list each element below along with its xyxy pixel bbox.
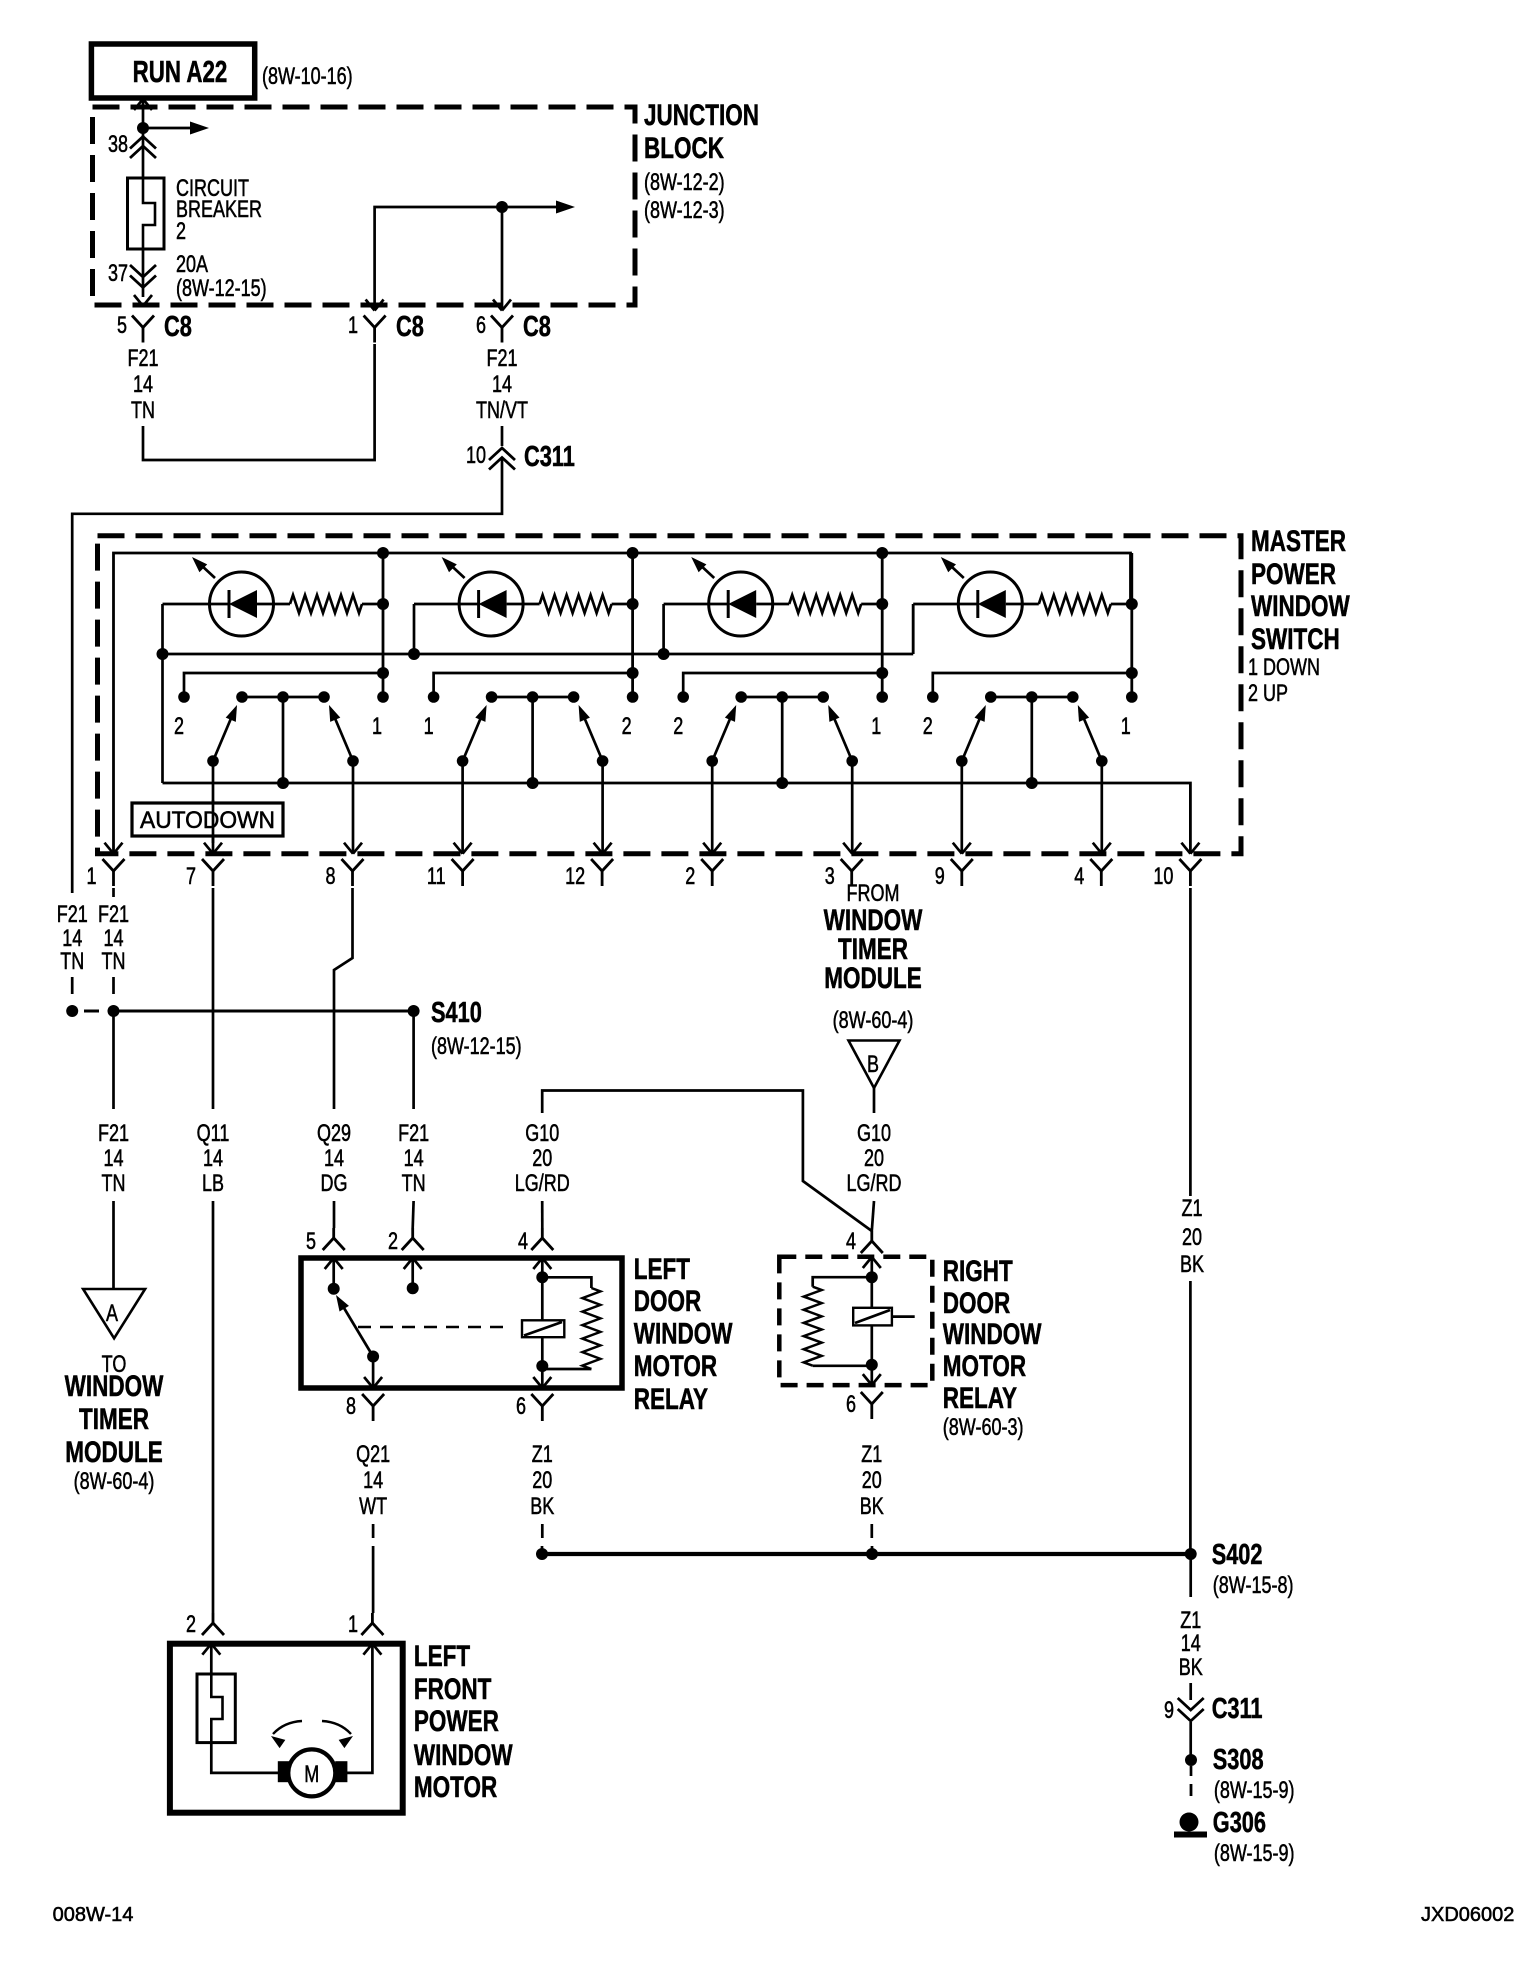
svg-text:2 UP: 2 UP <box>1248 681 1288 707</box>
svg-text:1: 1 <box>348 313 358 339</box>
arrow into motor pin 2 <box>202 1644 211 1655</box>
svg-text:1: 1 <box>372 714 382 740</box>
switch ground bus <box>163 783 1191 854</box>
switch cell 3 contact row <box>741 696 823 699</box>
switch cell 2 lamp return wire <box>413 604 416 654</box>
svg-text:JUNCTION: JUNCTION <box>644 98 759 132</box>
svg-text:M: M <box>304 1762 319 1788</box>
arrow at junction block border pin 6 <box>493 300 502 311</box>
node left relay pin2 <box>407 1282 419 1294</box>
switch cell 4 supply branch <box>1130 553 1133 697</box>
left relay pin 5 connector <box>332 1228 335 1238</box>
svg-text:F21: F21 <box>57 902 88 928</box>
motor circuit breaker <box>197 1674 235 1743</box>
arrow into right relay pin 4 <box>863 1257 872 1268</box>
switch cell 2 resistor <box>540 595 612 613</box>
svg-text:MODULE: MODULE <box>824 961 921 995</box>
switch pin 9 connector <box>951 859 973 871</box>
switch pin 10 connector <box>1179 859 1201 871</box>
svg-text:WINDOW: WINDOW <box>65 1369 164 1403</box>
power feed box RUN A22 <box>91 44 254 98</box>
left relay armature arm <box>341 1303 373 1357</box>
arrow at junction block border pin 5 <box>134 295 143 306</box>
switch cell 4 lamp return wire <box>912 604 915 654</box>
switch cell 3 illumination arrow <box>700 565 714 578</box>
svg-text:(8W-60-4): (8W-60-4) <box>833 1008 914 1034</box>
wire G10 from B to right relay pin 4 <box>873 1088 876 1113</box>
svg-text:(8W-12-15): (8W-12-15) <box>176 276 267 302</box>
svg-text:LB: LB <box>202 1171 224 1197</box>
svg-text:A: A <box>106 1301 119 1327</box>
svg-text:C8: C8 <box>523 311 551 343</box>
right relay coil <box>853 1308 892 1326</box>
switch cell 4 wiper wires to pins <box>960 761 963 854</box>
switch cell 4 illumination arrow <box>950 565 964 578</box>
node S402 bus left end <box>536 1548 548 1560</box>
left relay linkage dashed <box>358 1326 512 1328</box>
svg-text:F21: F21 <box>98 902 129 928</box>
right relay pin 6 connector <box>861 1392 883 1404</box>
arrow out right relay pin 6 <box>863 1374 872 1385</box>
arrow into motor pin 1 <box>363 1644 372 1655</box>
svg-text:WINDOW: WINDOW <box>1251 589 1350 623</box>
wire 5C8 loop to 1C8 <box>143 344 375 460</box>
svg-text:AUTODOWN: AUTODOWN <box>140 806 275 833</box>
svg-text:G10: G10 <box>525 1121 559 1147</box>
off-page connector B from window timer module <box>849 1041 900 1089</box>
svg-text:RUN A22: RUN A22 <box>133 54 228 88</box>
motor pin 2 connector <box>212 1613 215 1623</box>
svg-text:20: 20 <box>532 1468 552 1494</box>
left relay pin 8 connector <box>362 1394 384 1406</box>
node right relay coil bottom <box>866 1359 878 1371</box>
connector C311 pin 9 chevrons <box>1178 1698 1204 1710</box>
wire S402 down <box>1189 1554 1192 1597</box>
svg-text:BK: BK <box>530 1494 554 1520</box>
switch cell 3 lamp return wire <box>662 604 665 654</box>
right relay resistor <box>813 1277 872 1287</box>
svg-text:8: 8 <box>325 864 335 890</box>
left relay resistor <box>542 1277 591 1288</box>
wire arrow to right inside block <box>502 206 556 209</box>
switch cell 3 wiper wires to pins <box>711 761 714 854</box>
svg-text:(8W-10-16): (8W-10-16) <box>262 64 353 90</box>
svg-text:14: 14 <box>492 372 512 398</box>
connector C8 pin 37 chevrons <box>130 265 156 277</box>
svg-text:12: 12 <box>565 864 585 890</box>
svg-text:1: 1 <box>348 1612 358 1638</box>
svg-text:(8W-15-8): (8W-15-8) <box>1213 1573 1294 1599</box>
svg-text:38: 38 <box>108 132 128 158</box>
svg-text:20: 20 <box>862 1468 882 1494</box>
wire F21 TN from S410 to relay pin 2 <box>412 1011 415 1109</box>
svg-text:(8W-15-9): (8W-15-9) <box>1214 1778 1295 1804</box>
svg-text:20A: 20A <box>176 252 209 278</box>
switch cell 2 contact row <box>492 696 574 699</box>
svg-text:S410: S410 <box>431 997 482 1029</box>
switch cell 3 left wiper arm <box>712 716 731 761</box>
svg-text:C8: C8 <box>164 311 192 343</box>
splice S410 <box>408 1005 420 1017</box>
svg-text:MOTOR: MOTOR <box>414 1770 497 1804</box>
svg-text:1: 1 <box>1121 714 1131 740</box>
switch cell 2 outer contact link <box>434 673 633 697</box>
connector C8 pin 1 <box>364 316 386 328</box>
circuit breaker 2 20A <box>128 178 165 249</box>
arrow into RUN A22 box <box>134 99 143 110</box>
svg-text:WT: WT <box>359 1494 387 1520</box>
svg-text:14: 14 <box>404 1146 424 1172</box>
wire Z1 from switch pin 10 <box>1189 888 1192 1196</box>
svg-text:DOOR: DOOR <box>943 1286 1010 1320</box>
switch top supply bus <box>114 553 1131 854</box>
right relay pin 4 connector <box>870 1231 873 1241</box>
svg-text:20: 20 <box>864 1146 884 1172</box>
switch cell 4 left wiper arm <box>962 716 981 761</box>
node left relay pin5 <box>328 1283 340 1295</box>
svg-text:(8W-12-3): (8W-12-3) <box>644 198 725 224</box>
AUTODOWN function box <box>132 803 283 836</box>
svg-text:9: 9 <box>1164 1698 1174 1724</box>
wire branch arrow to right <box>143 127 192 130</box>
svg-text:Q21: Q21 <box>356 1442 390 1468</box>
svg-text:MOTOR: MOTOR <box>943 1349 1026 1383</box>
off-page connector A to window timer module <box>83 1289 145 1338</box>
left relay coil <box>522 1320 564 1337</box>
svg-text:6: 6 <box>476 313 486 339</box>
svg-text:MOTOR: MOTOR <box>634 1349 717 1383</box>
wire Q11 from switch pin 7 to motor <box>212 888 215 1109</box>
motor rotation arrows <box>273 1721 302 1734</box>
svg-text:2: 2 <box>923 714 933 740</box>
svg-text:S308: S308 <box>1213 1744 1264 1776</box>
svg-text:14: 14 <box>103 1146 123 1172</box>
svg-text:1: 1 <box>871 714 881 740</box>
switch cell 1 center contact to ground bus <box>282 697 285 783</box>
svg-text:BK: BK <box>1180 1252 1204 1278</box>
svg-text:14: 14 <box>324 1146 344 1172</box>
svg-text:RELAY: RELAY <box>943 1381 1017 1415</box>
arrow into left relay pin 2 <box>404 1258 413 1269</box>
arrow at switch border pin 1 <box>105 843 114 854</box>
arrow at junction block border pin 1 <box>366 300 375 311</box>
switch pin 1 connector <box>103 859 125 871</box>
svg-text:4: 4 <box>518 1229 528 1255</box>
svg-text:SWITCH: SWITCH <box>1251 622 1340 656</box>
left relay pin 2 connector <box>411 1228 414 1238</box>
svg-text:Z1: Z1 <box>861 1442 882 1468</box>
svg-text:RELAY: RELAY <box>634 1382 708 1416</box>
svg-text:F21: F21 <box>98 1121 129 1147</box>
svg-text:Q29: Q29 <box>317 1121 351 1147</box>
svg-text:BK: BK <box>1179 1655 1203 1681</box>
arrow into left relay pin 5 <box>325 1258 334 1269</box>
switch cell 3 right wiper arm <box>833 716 852 761</box>
svg-text:DOOR: DOOR <box>634 1284 701 1318</box>
node left relay pin4 <box>536 1271 548 1283</box>
svg-text:BK: BK <box>860 1494 884 1520</box>
connector C8 pin 5 <box>132 316 154 328</box>
svg-text:(8W-15-9): (8W-15-9) <box>1214 1841 1295 1867</box>
ground G306 <box>1180 1813 1199 1832</box>
switch cell 2 left wiper arm <box>463 716 482 761</box>
switch pin 2 connector <box>701 859 723 871</box>
switch cell 1 illumination lamp <box>210 572 274 636</box>
svg-text:2: 2 <box>186 1612 196 1638</box>
switch pin 4 connector <box>1090 859 1112 871</box>
svg-text:MASTER: MASTER <box>1251 524 1346 558</box>
switch cell 3 center contact to ground bus <box>781 697 784 783</box>
motor pin 1 connector <box>371 1613 374 1623</box>
svg-text:1 DOWN: 1 DOWN <box>1248 655 1320 681</box>
splice S402 <box>542 1552 1191 1556</box>
svg-text:F21: F21 <box>398 1121 429 1147</box>
svg-text:10: 10 <box>466 443 486 469</box>
node right relay pin 4 <box>866 1271 878 1283</box>
svg-text:S402: S402 <box>1212 1539 1263 1571</box>
svg-text:2: 2 <box>176 219 186 245</box>
switch cell 4 contact row <box>991 696 1073 699</box>
svg-text:20: 20 <box>532 1146 552 1172</box>
switch cell 2 wiper wires to pins <box>461 761 464 854</box>
svg-text:FRONT: FRONT <box>414 1672 491 1706</box>
switch pin 12 connector <box>591 859 613 871</box>
svg-text:LG/RD: LG/RD <box>847 1171 902 1197</box>
splice S410 bus <box>114 1010 414 1013</box>
left relay pin 4 connector <box>541 1228 544 1238</box>
svg-text:14: 14 <box>363 1468 383 1494</box>
svg-text:B: B <box>867 1052 879 1078</box>
svg-text:POWER: POWER <box>1251 557 1336 591</box>
svg-text:TN: TN <box>102 1171 126 1197</box>
svg-text:5: 5 <box>117 313 127 339</box>
switch cell 2 center contact to ground bus <box>531 697 534 783</box>
svg-text:WINDOW: WINDOW <box>634 1316 733 1350</box>
switch cell 3 supply branch <box>881 553 884 697</box>
connector C8 pin 6 <box>491 316 513 328</box>
svg-text:11: 11 <box>427 864 446 890</box>
svg-text:Q11: Q11 <box>197 1121 230 1147</box>
svg-text:14: 14 <box>203 1146 223 1172</box>
arrow out left relay pin 8 <box>364 1377 373 1388</box>
node junction dot below RUN A22 <box>137 122 149 134</box>
svg-text:4: 4 <box>846 1229 856 1255</box>
connector C8 pin 38 chevrons <box>130 137 156 149</box>
left front power window motor outline <box>170 1644 403 1813</box>
wire motor to pin 1 <box>347 1644 373 1773</box>
switch cell 4 illumination lamp <box>958 572 1022 636</box>
svg-text:3: 3 <box>825 864 835 890</box>
svg-text:2: 2 <box>685 864 695 890</box>
switch cell 4 resistor <box>1039 595 1111 613</box>
svg-text:C311: C311 <box>1212 1693 1263 1725</box>
svg-text:F21: F21 <box>486 346 517 372</box>
svg-text:7: 7 <box>186 864 196 890</box>
switch cell 1 outer contact link <box>184 673 383 697</box>
svg-text:008W-14: 008W-14 <box>53 1904 134 1926</box>
wire Q29 from switch pin 8 to relay <box>334 888 353 1109</box>
svg-text:RIGHT: RIGHT <box>943 1254 1013 1288</box>
svg-text:LG/RD: LG/RD <box>515 1171 570 1197</box>
switch cell 4 right wiper arm <box>1083 716 1102 761</box>
svg-text:F21: F21 <box>127 346 158 372</box>
svg-text:TN: TN <box>60 949 84 975</box>
svg-text:4: 4 <box>1074 864 1084 890</box>
svg-text:1: 1 <box>86 864 96 890</box>
switch cell 2 illumination arrow <box>451 565 465 578</box>
svg-text:MODULE: MODULE <box>65 1435 162 1469</box>
wire from RUN A22 into junction block <box>142 98 145 178</box>
svg-text:(8W-12-2): (8W-12-2) <box>644 170 725 196</box>
svg-text:WINDOW: WINDOW <box>414 1738 513 1772</box>
svg-text:14: 14 <box>1181 1631 1201 1657</box>
wire A-triangle branch <box>112 1011 115 1109</box>
svg-text:BLOCK: BLOCK <box>644 131 724 165</box>
svg-text:1: 1 <box>424 714 434 740</box>
switch cell 1 contact row <box>242 696 324 699</box>
switch cell 1 illumination arrow <box>201 565 215 578</box>
svg-text:Z1: Z1 <box>532 1442 553 1468</box>
svg-text:37: 37 <box>108 261 128 287</box>
svg-text:G10: G10 <box>857 1121 891 1147</box>
svg-text:(8W-60-3): (8W-60-3) <box>943 1415 1024 1441</box>
svg-text:6: 6 <box>516 1394 526 1420</box>
svg-text:14: 14 <box>133 372 153 398</box>
svg-text:Z1: Z1 <box>1181 1196 1202 1222</box>
switch cell 1 wiper wires to pins <box>212 761 215 854</box>
wire breaker to motor <box>211 1743 278 1773</box>
svg-text:LEFT: LEFT <box>414 1639 470 1673</box>
arrow at switch border pin 10 <box>1181 843 1190 854</box>
node dot above 6C8 <box>496 201 508 213</box>
right door window motor relay outline <box>779 1257 932 1385</box>
svg-text:C311: C311 <box>524 441 575 473</box>
svg-text:TN: TN <box>102 949 126 975</box>
svg-text:WINDOW: WINDOW <box>943 1317 1042 1351</box>
wire C311 down and left to S410 feed <box>72 457 502 893</box>
svg-text:POWER: POWER <box>414 1704 499 1738</box>
switch pin 7 connector <box>202 859 224 871</box>
wire breaker to border <box>142 249 145 297</box>
switch pin 8 connector <box>342 859 364 871</box>
switch cell 3 outer contact link <box>683 673 882 697</box>
arrow out left relay pin 6 <box>533 1377 542 1388</box>
svg-text:DG: DG <box>321 1171 348 1197</box>
svg-text:TN/VT: TN/VT <box>476 398 528 424</box>
connector C311 pin 10 chevrons <box>489 448 515 460</box>
splice S308 <box>1185 1754 1197 1766</box>
node left relay coil bottom <box>536 1360 548 1372</box>
link between feed dots <box>84 1010 99 1013</box>
svg-text:BREAKER: BREAKER <box>176 197 262 223</box>
svg-text:5: 5 <box>306 1229 316 1255</box>
left relay pin 6 connector <box>531 1394 553 1406</box>
svg-text:9: 9 <box>935 864 945 890</box>
svg-text:JXD06002: JXD06002 <box>1421 1904 1514 1926</box>
wire TN/VT to C311 <box>501 426 504 446</box>
wire 1C8 up inside block and right <box>375 207 502 311</box>
switch cell 2 supply branch <box>631 553 634 697</box>
svg-text:8: 8 <box>346 1394 356 1420</box>
switch cell 1 resistor <box>290 595 362 613</box>
svg-text:6: 6 <box>846 1392 856 1418</box>
wire 6C8 down to border <box>501 207 504 311</box>
svg-text:TN: TN <box>402 1171 426 1197</box>
switch cell 3 resistor <box>789 595 861 613</box>
svg-text:2: 2 <box>388 1229 398 1255</box>
wire G10 branch to left relay <box>542 1091 872 1232</box>
junction block outline <box>93 107 636 305</box>
arrow into left relay pin 4 <box>533 1258 542 1269</box>
svg-text:G306: G306 <box>1213 1807 1266 1839</box>
svg-text:2: 2 <box>174 714 184 740</box>
switch cell 1 left wiper arm <box>213 716 232 761</box>
switch pin 11 connector <box>452 859 474 871</box>
switch cell 4 center contact to ground bus <box>1030 697 1033 783</box>
svg-text:LEFT: LEFT <box>634 1252 690 1286</box>
left door window motor relay outline <box>301 1258 622 1388</box>
switch cell 2 illumination lamp <box>459 572 523 636</box>
svg-text:TN: TN <box>131 398 155 424</box>
left relay pin 8 wire <box>372 1357 375 1389</box>
switch cell 3 illumination lamp <box>709 572 773 636</box>
switch pin 3 connector <box>841 859 863 871</box>
switch cell 4 outer contact link <box>933 673 1132 697</box>
node S402 bus center <box>866 1548 878 1560</box>
switch cell 1 supply branch <box>382 553 385 697</box>
svg-text:10: 10 <box>1153 864 1173 890</box>
svg-text:2: 2 <box>673 714 683 740</box>
switch illumination common bus <box>163 653 914 656</box>
svg-text:20: 20 <box>1182 1225 1202 1251</box>
master power window switch outline <box>98 536 1242 854</box>
motor M <box>288 1749 335 1796</box>
svg-text:TIMER: TIMER <box>79 1402 149 1436</box>
svg-text:(8W-60-4): (8W-60-4) <box>74 1469 155 1495</box>
switch cell 2 right wiper arm <box>584 716 603 761</box>
svg-text:(8W-12-15): (8W-12-15) <box>431 1034 522 1060</box>
switch cell 1 right wiper arm <box>334 716 353 761</box>
switch cell 1 lamp return wire <box>161 604 164 783</box>
svg-text:2: 2 <box>622 714 632 740</box>
wire switch pin1 to S410 <box>112 888 115 897</box>
svg-text:C8: C8 <box>396 311 424 343</box>
